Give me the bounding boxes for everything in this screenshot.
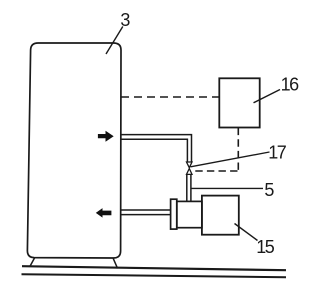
valve 17 (hourglass symbol): [187, 162, 193, 174]
ground line upper: [22, 266, 286, 270]
svg-text:16: 16: [281, 74, 300, 94]
return pipe upper wall: [121, 209, 171, 211]
tank right foot: [113, 258, 117, 268]
svg-text:15: 15: [256, 237, 275, 257]
controller box 16: [219, 78, 259, 127]
svg-text:3: 3: [120, 10, 130, 30]
svg-text:17: 17: [268, 142, 287, 162]
dashed control line horizontal to valve 17: [193, 170, 238, 172]
dashed control line tank to box 16: [121, 96, 219, 98]
tank left foot: [30, 258, 35, 267]
pipe 5 upper run inner wall: [121, 139, 187, 162]
pump body: [177, 201, 202, 227]
svg-text:5: 5: [264, 180, 274, 200]
pipe below valve left wall: [186, 174, 188, 201]
return pipe lower wall: [121, 214, 171, 216]
motor 15: [202, 196, 239, 235]
ground line lower: [22, 274, 287, 277]
pipe below valve right wall: [190, 174, 192, 201]
flow arrow into pipe (right-pointing): [98, 131, 114, 142]
leader line for label 17: [191, 152, 270, 167]
leader line for label 16: [254, 90, 281, 103]
leader line for label 3: [106, 27, 123, 55]
tank 3: [27, 43, 121, 258]
flow arrow into tank (left-pointing): [96, 208, 112, 218]
leader line for label 5: [191, 187, 263, 189]
pipe 5 upper run outer wall: [121, 135, 192, 162]
leader line for label 15: [235, 224, 258, 241]
pump flange: [171, 199, 177, 229]
dashed control line box 16 down to valve: [237, 128, 239, 171]
